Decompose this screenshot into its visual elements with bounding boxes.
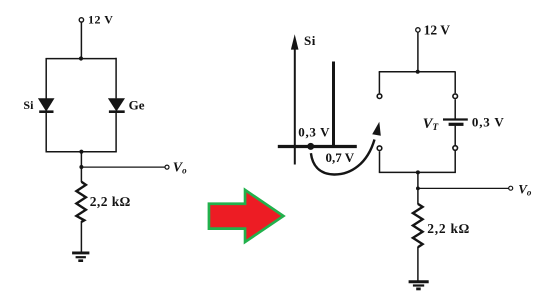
svg-text:VT: VT bbox=[423, 116, 440, 133]
svg-text:0,3 V: 0,3 V bbox=[298, 125, 330, 140]
wire: left circuit top bus bbox=[46, 58, 117, 60]
junction: left bottom node bbox=[79, 150, 83, 154]
resistor R1 2.2 kOhm (left) bbox=[76, 182, 86, 222]
svg-text:Vo: Vo bbox=[518, 181, 532, 197]
wire: open branch upper lead bbox=[378, 72, 380, 94]
ground symbol (left) bbox=[72, 253, 89, 261]
junction: right output node bbox=[416, 187, 420, 191]
graph: Si characteristic vertical line at 0.7V bbox=[332, 62, 335, 148]
wire: right supply lead bbox=[417, 32, 419, 72]
wire: battery branch upper lead bbox=[454, 72, 456, 93]
red block arrow (transition) bbox=[208, 187, 286, 244]
wire: resistor to ground (right) bbox=[417, 247, 419, 281]
wire: to Vo terminal (right) bbox=[418, 187, 509, 189]
svg-text:0,3 V: 0,3 V bbox=[472, 114, 505, 129]
wire: output node to resistor bbox=[80, 167, 82, 182]
junction: left top node bbox=[79, 56, 83, 60]
svg-text:0,7 V: 0,7 V bbox=[326, 150, 355, 165]
graph: vertical axis arrowhead bbox=[291, 34, 299, 49]
curved arrow from operating point to open branch bbox=[311, 122, 381, 175]
wire: battery branch lower lead bbox=[454, 151, 456, 172]
wire: bottom node to output node bbox=[80, 152, 82, 167]
svg-text:12 V: 12 V bbox=[88, 13, 113, 27]
terminal: open branch upper (Si removed) bbox=[377, 94, 382, 99]
wire: right branch lower (Ge) bbox=[115, 112, 117, 153]
svg-text:Ge: Ge bbox=[129, 98, 145, 113]
wire: left circuit bottom bus bbox=[46, 151, 117, 153]
diode D1 Si (anode top, cathode bottom) bbox=[38, 98, 55, 111]
wire: right circuit bottom bus bbox=[379, 171, 456, 173]
graph: horizontal axis bbox=[278, 145, 357, 148]
node: +12V supply terminal (left circuit) bbox=[79, 18, 83, 22]
wire: left branch lower (Si) bbox=[45, 112, 47, 153]
node: Vo terminal (right) bbox=[509, 186, 513, 190]
node: Vo terminal (left) bbox=[165, 165, 169, 169]
terminal: battery branch upper bbox=[453, 94, 458, 99]
wire: right circuit top bus bbox=[379, 71, 456, 73]
resistor R2 2.2 kOhm (right) bbox=[413, 204, 423, 247]
wire: left branch upper (Si) bbox=[45, 58, 47, 99]
wire: left supply lead bbox=[80, 22, 82, 58]
svg-text:2,2 kΩ: 2,2 kΩ bbox=[90, 194, 131, 209]
terminal: battery branch lower bbox=[453, 146, 458, 151]
wire: to Vo terminal (left) bbox=[81, 166, 165, 168]
wire: terminal to battery bbox=[454, 99, 456, 119]
svg-text:Vo: Vo bbox=[173, 160, 187, 175]
node: +12V supply terminal (right circuit) bbox=[416, 28, 420, 32]
graph: vertical axis (Si characteristic) bbox=[294, 47, 296, 165]
wire: right branch upper (Ge) bbox=[115, 58, 117, 99]
wire: open branch lower lead bbox=[379, 151, 381, 172]
svg-text:12 V: 12 V bbox=[424, 23, 451, 38]
svg-text:2,2 kΩ: 2,2 kΩ bbox=[427, 221, 470, 236]
terminal: open branch lower (Si removed) bbox=[377, 146, 382, 151]
svg-text:Si: Si bbox=[304, 33, 316, 48]
svg-text:Si: Si bbox=[23, 98, 34, 112]
ground symbol (right) bbox=[409, 282, 429, 289]
junction: right bottom node bbox=[416, 170, 420, 174]
junction: right top node bbox=[416, 70, 420, 74]
wire: bottom node to output node (right) bbox=[417, 172, 419, 188]
wire: resistor to ground (left) bbox=[80, 221, 82, 252]
wire: battery to lower terminal bbox=[454, 126, 456, 146]
diode D2 Ge (anode top, cathode bottom) bbox=[108, 98, 125, 112]
junction: left output node bbox=[79, 165, 83, 169]
battery VT 0.3 V (Ge replaced by source) bbox=[443, 120, 468, 125]
wire: output node to resistor (right) bbox=[417, 188, 419, 204]
operating point dot at 0.3V bbox=[307, 143, 314, 150]
